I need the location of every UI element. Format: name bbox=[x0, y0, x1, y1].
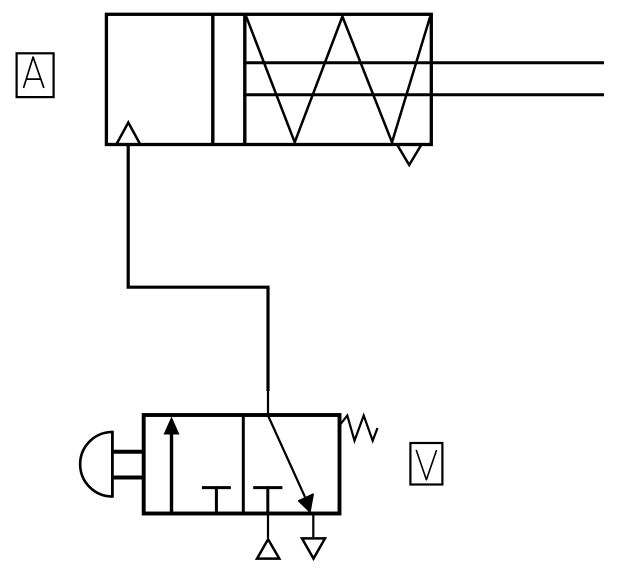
cylinder vent bbox=[397, 145, 422, 166]
return spring bbox=[246, 17, 430, 143]
push button actuator bbox=[80, 431, 144, 498]
label V letter bbox=[416, 450, 436, 480]
piston rod bbox=[245, 63, 604, 95]
label A letter bbox=[24, 57, 44, 88]
valve position divider bbox=[242, 415, 245, 514]
exhaust port triangle (port 3) bbox=[302, 538, 325, 558]
valve V body bbox=[144, 415, 340, 514]
supply port stub (port 1) bbox=[267, 514, 269, 539]
supply port triangle (port 1) bbox=[257, 539, 279, 558]
valve left position flow arrow bbox=[164, 417, 180, 513]
valve right position flow path 2-3 bbox=[268, 416, 313, 512]
cylinder A body bbox=[106, 14, 431, 144]
label V box bbox=[410, 443, 442, 485]
blocked port T (right position) bbox=[253, 486, 282, 513]
cylinder port arrow bbox=[116, 123, 140, 145]
piston bbox=[213, 14, 245, 144]
valve port 2 stub bbox=[267, 391, 269, 416]
blocked port T (left position) bbox=[202, 486, 231, 513]
valve return spring bbox=[340, 416, 378, 441]
label A box bbox=[17, 53, 54, 97]
wire cylinder port to valve port bbox=[128, 145, 268, 391]
exhaust port stub (port 3) bbox=[312, 514, 314, 538]
